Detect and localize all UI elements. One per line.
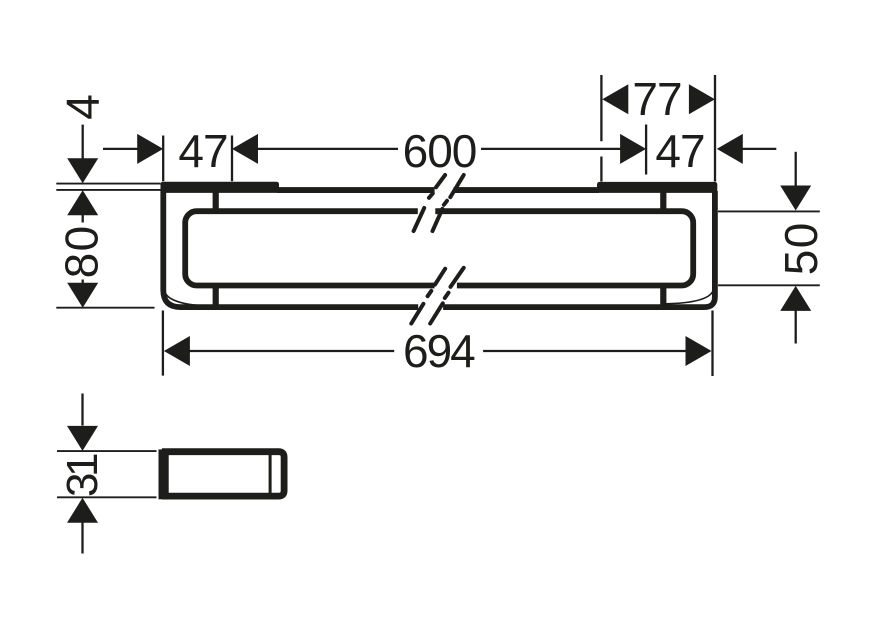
dim 50 stem top bbox=[795, 152, 797, 186]
dim 600 line left segment bbox=[257, 148, 398, 150]
extension line E (77/47 right) bbox=[714, 75, 716, 182]
extension line C (77 left) with gap for dim line bbox=[600, 75, 602, 141]
dim 694 right extension line bbox=[711, 311, 713, 377]
break gap in frame bottom edge bbox=[418, 301, 443, 313]
lower break mark slash 1 bbox=[411, 269, 445, 324]
left support arm bbox=[213, 192, 219, 305]
corner highlight arc bottom-right bbox=[664, 289, 714, 304]
upper break mark slash 2 bbox=[433, 175, 464, 231]
dim 50 stem bottom bbox=[795, 310, 797, 344]
right support arm bbox=[660, 192, 666, 305]
dim 80 lower stem bbox=[82, 280, 84, 285]
left end block bbox=[161, 182, 280, 193]
dim row leader left of 47 bbox=[103, 148, 138, 150]
dim 4 upper extension line bbox=[56, 183, 160, 185]
dim 50 bottom extension line bbox=[718, 284, 820, 286]
svg-text:47: 47 bbox=[655, 125, 704, 177]
dim 31 down arrow bbox=[67, 426, 98, 451]
dim 4 stem bbox=[82, 125, 84, 159]
dim 31 up arrow bbox=[67, 498, 98, 523]
side view end-cap seam line bbox=[269, 454, 272, 494]
side view wall-plate cap bbox=[159, 449, 167, 499]
dim 31 stem bottom bbox=[81, 522, 83, 554]
dim 50 up arrow bbox=[780, 286, 811, 311]
lower break mark slash 2 bbox=[430, 268, 464, 324]
svg-text:694: 694 bbox=[403, 325, 475, 377]
dim 31 stem top bbox=[81, 394, 83, 426]
dim 694 right arrow bbox=[686, 336, 712, 366]
svg-text:1: 1 bbox=[58, 453, 107, 477]
dim 47-right outer arrow (points left at E) bbox=[717, 134, 743, 164]
dim 47-left outer arrow (points right at A) bbox=[137, 134, 163, 164]
dim 4 down arrow bbox=[67, 158, 98, 183]
extension line D (600/47 boundary) bbox=[645, 125, 647, 175]
svg-text:77: 77 bbox=[632, 73, 681, 125]
corner highlight arc bottom-left bbox=[165, 291, 211, 306]
svg-text:4: 4 bbox=[57, 95, 109, 120]
dim 4 lower extension line bbox=[56, 189, 161, 191]
dim 80 down arrow bbox=[67, 283, 98, 308]
dim 50 down arrow bbox=[780, 186, 811, 211]
svg-text:47: 47 bbox=[178, 125, 227, 177]
shared up arrow (4 bottom / 80 top) bbox=[67, 190, 98, 215]
extension line A (left 47 / 694 left, above body) bbox=[162, 136, 164, 182]
dim 694 line left segment bbox=[189, 350, 394, 352]
top rail band right segment bbox=[454, 187, 600, 193]
dim 600 right arrow (points right at D) bbox=[620, 134, 646, 164]
svg-text:50: 50 bbox=[775, 221, 827, 275]
dim 600 line right segment bbox=[481, 148, 621, 150]
dim 77 left arrow bbox=[602, 84, 628, 114]
side view body outline bbox=[165, 452, 284, 496]
dim 80 upper stem bbox=[82, 215, 84, 223]
upper break mark slash 1 bbox=[414, 175, 446, 231]
top rail band left segment bbox=[277, 187, 435, 193]
break gap in bar bottom edge bbox=[435, 280, 457, 292]
dim row leader right of 47-right bbox=[742, 148, 777, 150]
dim 694 left extension line bbox=[162, 311, 164, 376]
break gap in bar top edge bbox=[418, 206, 436, 218]
outer frame (left edge, bottom, right edge) bbox=[163, 191, 715, 307]
svg-text:600: 600 bbox=[403, 125, 477, 177]
dim 31 top extension line bbox=[57, 450, 157, 452]
dim 694 line right segment bbox=[483, 350, 686, 352]
dim 600 left arrow (points left at B) bbox=[232, 134, 258, 164]
dim 80 bottom extension line bbox=[56, 307, 154, 309]
dim 31 bottom extension line bbox=[57, 496, 157, 498]
dim 77 right arrow bbox=[689, 84, 715, 114]
right end block bbox=[597, 182, 717, 193]
extension line B (47/600 boundary) bbox=[231, 136, 233, 182]
dim 694 left arrow bbox=[164, 336, 190, 366]
towel bar (inner rounded rectangle) bbox=[185, 211, 693, 285]
svg-text:80: 80 bbox=[55, 224, 107, 278]
dim 50 top extension line bbox=[718, 210, 820, 212]
